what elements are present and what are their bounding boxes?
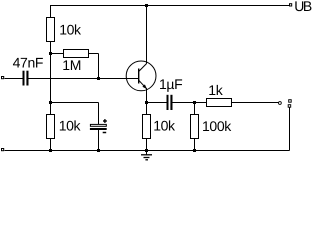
wire divider to elko branch — [51, 102, 99, 104]
terminal output lower — [288, 105, 291, 108]
wire collector — [146, 6, 148, 64]
wire C1 to base — [28, 78, 138, 80]
wire UB top rail — [50, 5, 289, 7]
C3 plus sign — [103, 120, 107, 122]
wire 1M right lead — [89, 53, 99, 55]
wire 1M drop to base — [98, 54, 100, 79]
wire output drop to ground rail — [289, 108, 291, 151]
wire C2 to R6 — [173, 102, 207, 104]
wire ground rail — [5, 150, 290, 152]
wire R5 bottom lead — [194, 139, 196, 151]
Q1 collector diagonal — [139, 64, 147, 72]
svg-text:100k: 100k — [202, 118, 232, 134]
Q1 emitter arrowhead — [142, 84, 147, 89]
resistor R3 10k (bias lower) — [47, 115, 55, 139]
Q1 circle — [126, 61, 156, 91]
node dot elko ground junction — [97, 149, 100, 152]
svg-text:UB: UB — [294, 0, 312, 14]
terminal input — [2, 77, 4, 79]
wire bias vertical R1 to R3 — [50, 42, 52, 115]
node dot divider branch junction — [49, 101, 52, 104]
wire R4 bottom lead — [146, 139, 148, 151]
terminal UB — [290, 4, 292, 6]
svg-text:10k: 10k — [59, 118, 82, 134]
svg-text:1k: 1k — [208, 82, 223, 98]
node dot R3 ground junction — [49, 149, 52, 152]
wire elko top lead — [98, 103, 100, 125]
wire emitter to C2 — [147, 102, 167, 104]
capacitor C2 1uF — [167, 95, 173, 110]
resistor R6 1k — [207, 99, 232, 107]
wire input line left of C1 — [5, 78, 23, 80]
Q1 base bar — [138, 69, 140, 84]
wire R5 top lead — [194, 103, 196, 115]
Q1 emitter diagonal — [139, 80, 147, 88]
svg-text:1M: 1M — [62, 57, 81, 73]
wire R3 bottom lead — [50, 139, 52, 151]
wire R1 top lead — [50, 6, 52, 18]
svg-text:10k: 10k — [59, 22, 82, 38]
capacitor C3 electrolytic — [90, 119, 107, 132]
terminal output end circle — [279, 102, 282, 105]
wire 1M left lead — [51, 53, 64, 55]
wire elko bottom lead — [98, 130, 100, 151]
node dot 100k top junction — [193, 101, 196, 104]
node dot 100k ground junction — [193, 149, 196, 152]
resistor R5 100k — [191, 115, 199, 139]
C3 minus sign — [103, 132, 107, 134]
terminal input ground — [2, 149, 4, 151]
node dot collector rail junction — [145, 4, 148, 7]
svg-text:47nF: 47nF — [13, 55, 44, 71]
transistor Q1 — [126, 61, 156, 91]
capacitor C1 47nF — [23, 71, 29, 86]
resistor R1 10k (bias upper) — [47, 18, 55, 42]
ground — [141, 151, 152, 160]
wire emitter lead — [146, 88, 148, 114]
resistor R2 1M — [64, 50, 89, 58]
terminal output upper — [289, 100, 292, 103]
node dot 1M-R1 junction — [49, 52, 52, 55]
node dot emitter output junction — [145, 101, 148, 104]
svg-text:1µF: 1µF — [159, 76, 182, 92]
resistor R4 10k (emitter) — [143, 115, 151, 139]
node dot base junction — [97, 77, 100, 80]
svg-text:10k: 10k — [153, 118, 176, 134]
wire R6 to output — [232, 102, 279, 104]
node dot emitter ground junction — [145, 149, 148, 152]
